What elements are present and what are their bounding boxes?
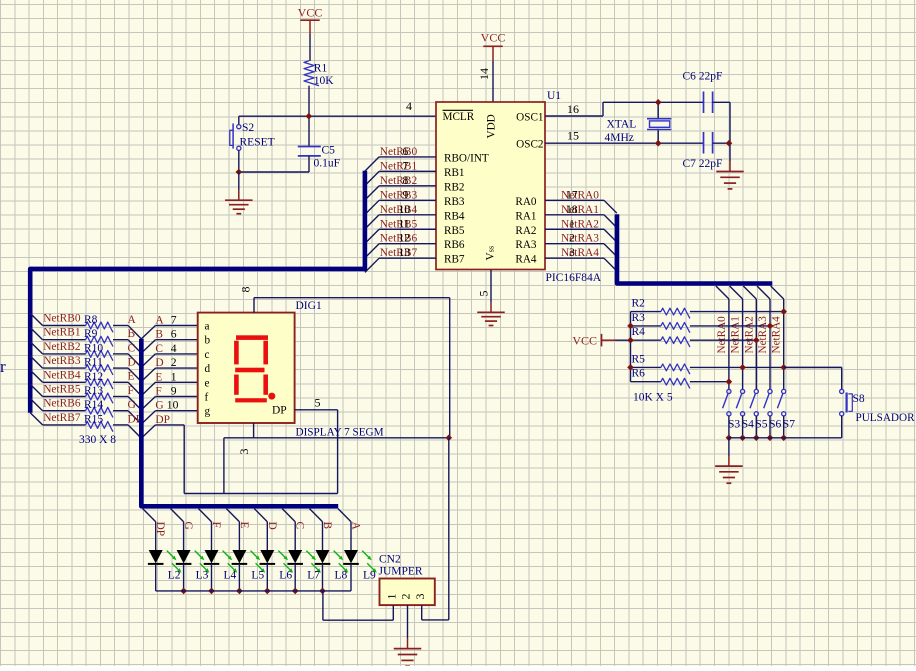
svg-text:0.1uF: 0.1uF <box>314 158 341 170</box>
bus entry row DP into display bus <box>128 425 155 438</box>
wire NetRA3 column <box>769 299 771 389</box>
svg-text:S3: S3 <box>728 419 740 431</box>
bus entry row A into display bus <box>128 326 155 339</box>
wire VCC to R1 <box>309 34 311 61</box>
svg-text:330 X 8: 330 X 8 <box>79 434 116 446</box>
value label 330 X 8 <box>79 434 116 446</box>
resistor R12 <box>43 371 129 389</box>
junction VCC column R5 <box>627 364 634 371</box>
segment letter E (at display) <box>155 370 176 383</box>
ground below U1 Vss <box>477 312 505 325</box>
U1 part type PIC16F84A <box>546 272 602 284</box>
bus entry left row G <box>30 399 42 411</box>
svg-text:9: 9 <box>171 385 177 398</box>
pin number 5 (display DP) <box>315 396 321 410</box>
net label NetRB2 (resistor array) <box>43 341 81 353</box>
resistor R1 <box>304 61 334 87</box>
resistor R13 <box>43 385 129 403</box>
segment letter D (left) <box>128 357 136 369</box>
wire S8 bottom to common <box>841 416 843 438</box>
net label NetRB4 (at U1) <box>380 203 418 216</box>
svg-text:Vss: Vss <box>485 246 497 261</box>
display pin letter g <box>205 406 211 418</box>
U1 designator <box>547 90 561 102</box>
bus entry to LED L6 <box>254 509 267 522</box>
svg-text:S5: S5 <box>755 419 767 431</box>
svg-text:DP: DP <box>155 414 170 426</box>
svg-text:R14: R14 <box>84 399 103 411</box>
svg-text:F: F <box>155 386 161 398</box>
net label NetRA3 (column) <box>757 316 769 354</box>
svg-text:10: 10 <box>167 399 179 412</box>
svg-text:NetRB5: NetRB5 <box>43 384 81 396</box>
svg-text:L2: L2 <box>168 570 181 582</box>
ground below S2 <box>225 172 253 214</box>
wire resistor feed column <box>630 312 632 382</box>
wire Vss pin to ground <box>490 270 492 312</box>
switch S2 <box>230 122 275 150</box>
wire NetRA4 to S8 <box>784 367 842 389</box>
LED L5 <box>232 522 266 582</box>
svg-text:7: 7 <box>403 159 409 172</box>
resistor R15 <box>43 413 129 431</box>
junction R6/NetRA0 <box>726 378 733 385</box>
svg-text:R8: R8 <box>84 314 98 326</box>
svg-text:4: 4 <box>406 99 412 113</box>
svg-text:NetRB1: NetRB1 <box>380 160 418 172</box>
bus entry row D into display bus <box>128 368 155 381</box>
wire NetRA2 column <box>755 299 757 389</box>
wire LED L9 cathode <box>350 564 352 591</box>
U1 pin name RB1 <box>444 167 465 179</box>
wire NetRA1 column <box>742 299 744 389</box>
net label NetRB1 (at U1) <box>380 159 418 172</box>
seven segment digit <box>234 335 268 402</box>
svg-text:OSC1: OSC1 <box>516 112 543 124</box>
svg-text:RBO/INT: RBO/INT <box>444 152 489 164</box>
wire RA4 to bus <box>545 258 617 271</box>
bus entry to LED L5 <box>226 509 239 522</box>
svg-text:6: 6 <box>403 145 409 158</box>
display pin letter e <box>205 377 210 389</box>
wire RB2 to bus <box>365 186 436 200</box>
svg-text:4: 4 <box>171 342 177 355</box>
svg-text:A: A <box>155 315 164 327</box>
wire RA3 to bus <box>545 244 617 257</box>
svg-text:10K: 10K <box>314 75 335 87</box>
display pin letter a <box>205 321 210 333</box>
CN2 pin number 3 <box>413 594 427 600</box>
svg-text:RA2: RA2 <box>515 225 536 237</box>
net label NetRB1 (resistor array) <box>43 327 81 339</box>
svg-text:MCLR: MCLR <box>443 111 475 123</box>
svg-text:RA1: RA1 <box>515 210 536 222</box>
bus entry to LED L9 <box>338 509 351 522</box>
svg-text:RB1: RB1 <box>444 167 465 179</box>
wire S7 to common <box>783 416 785 438</box>
svg-text:D: D <box>155 357 163 369</box>
svg-text:NetRA2: NetRA2 <box>561 218 599 230</box>
wire display bottom pin <box>224 423 449 438</box>
svg-text:R1: R1 <box>314 63 328 75</box>
resistor R4 <box>631 326 757 347</box>
svg-text:VCC: VCC <box>481 31 506 45</box>
junction R2/NetRA4 <box>780 308 787 315</box>
svg-text:NetRB0: NetRB0 <box>380 146 418 158</box>
svg-text:F: F <box>128 385 134 397</box>
wire RB4 to bus <box>365 215 436 229</box>
pin number 15 (OSC2) <box>567 129 579 143</box>
svg-text:D: D <box>128 357 136 369</box>
wire LED common to CN2 pin 1 <box>323 591 393 620</box>
bus entry to NetRA4 column <box>771 286 784 299</box>
svg-text:NetRB3: NetRB3 <box>43 355 81 367</box>
bus entry row C into display bus <box>128 354 155 367</box>
svg-text:DIG1: DIG1 <box>296 300 322 312</box>
svg-text:10K X 5: 10K X 5 <box>633 392 673 404</box>
bus entry to NetRA0 column <box>716 286 729 299</box>
svg-text:L5: L5 <box>251 570 264 582</box>
svg-text:NetRA3: NetRA3 <box>757 316 769 354</box>
wire display DP pin <box>295 409 338 411</box>
bus entry left row A <box>30 313 42 325</box>
display pin letter c <box>205 349 210 361</box>
segment letter D (LED) <box>266 522 278 530</box>
segment letter G (left) <box>128 399 136 411</box>
junction S6 common <box>767 435 774 442</box>
wire S6 to common <box>769 416 771 438</box>
LED L6 <box>260 522 294 582</box>
svg-text:b: b <box>205 335 211 347</box>
crystal XTAL 4MHz <box>605 102 672 144</box>
svg-text:3: 3 <box>413 594 427 600</box>
net label NetRB0 (at U1) <box>380 145 418 158</box>
svg-text:L3: L3 <box>196 570 209 582</box>
LED L8 <box>315 522 349 582</box>
svg-text:a: a <box>205 321 210 333</box>
net label NetRB2 (at U1) <box>380 174 418 187</box>
bus entry row G into display bus <box>128 411 155 424</box>
svg-text:R9: R9 <box>84 328 98 340</box>
display pin letter DP <box>272 405 287 417</box>
wire segment F to display pin <box>155 396 197 398</box>
junction LED L5 common <box>236 588 243 595</box>
wire RB0 to bus <box>365 157 436 171</box>
pin number 8 (display common top) <box>239 287 253 293</box>
display part type DISPLAY 7 SEGM <box>296 426 384 438</box>
capacitor C5 <box>298 145 340 173</box>
bus segment display feed <box>141 339 338 506</box>
net label NetRB5 (at U1) <box>380 217 418 230</box>
wire LED L6 cathode <box>266 564 268 591</box>
resistor R6 <box>631 368 729 389</box>
switch S8 PULSADOR <box>840 389 915 424</box>
switch S6 <box>764 389 782 430</box>
junction R5/NetRA4 <box>780 364 787 371</box>
svg-text:NetRA2: NetRA2 <box>743 316 755 353</box>
svg-text:14: 14 <box>477 68 491 80</box>
resistor R14 <box>43 399 129 417</box>
segment letter B (LED) <box>321 522 333 530</box>
U1 pin name OSC2 <box>516 139 543 151</box>
net label NetRB3 (resistor array) <box>43 355 81 367</box>
segment letter A (at display) <box>155 314 176 327</box>
capacitor C7 22pF <box>683 132 723 170</box>
wire stub DP net crossing <box>223 438 225 494</box>
svg-text:DP: DP <box>272 405 287 417</box>
wire segment D to display pin <box>155 367 197 369</box>
bus entry left row F <box>30 384 42 396</box>
bus entry to LED L4 <box>199 509 212 522</box>
wire segment DP routing <box>155 410 337 494</box>
bus entry to LED L8 <box>310 509 323 522</box>
junction LED L7 common <box>292 588 299 595</box>
pin number 4 (MCLR) <box>406 99 412 113</box>
svg-text:r: r <box>0 357 6 376</box>
svg-text:NetRA0: NetRA0 <box>716 316 728 354</box>
svg-text:R12: R12 <box>84 371 103 383</box>
U1 pin name MCLR (with overbar) <box>443 110 475 123</box>
switch S4 <box>736 389 754 430</box>
svg-text:12: 12 <box>399 232 411 245</box>
svg-text:C6 22pF: C6 22pF <box>683 71 723 83</box>
connector CN2 body <box>380 579 435 606</box>
U1 pin name RA3 <box>515 239 537 251</box>
svg-text:g: g <box>205 406 211 418</box>
wire LED L7 cathode <box>294 564 296 591</box>
svg-text:10: 10 <box>399 203 411 216</box>
svg-text:L4: L4 <box>224 570 237 582</box>
bus from U1 RB pins to resistor array <box>30 171 365 413</box>
wire LED L8 cathode <box>322 564 324 591</box>
wire S4 to common <box>742 416 744 438</box>
U1 pin name RB6 <box>444 239 465 251</box>
wire RB6 to bus <box>365 244 436 258</box>
svg-text:VCC: VCC <box>572 333 597 347</box>
svg-text:5: 5 <box>315 396 321 410</box>
display pin letter d <box>205 363 211 375</box>
wire OSC1 to crystal <box>545 102 704 116</box>
pin number 16 (OSC1) <box>567 102 579 116</box>
power VCC (top left) <box>298 6 323 35</box>
bus entry to LED L2 <box>143 509 156 522</box>
wire VCC to resistor column <box>615 339 631 341</box>
svg-text:3: 3 <box>569 246 575 259</box>
switch S7 <box>777 389 795 430</box>
segment letter C (at display) <box>155 342 176 355</box>
bus entry left row DP <box>30 413 42 425</box>
U1 pin name RB4 <box>444 210 465 222</box>
display DIG1 body <box>198 313 295 423</box>
bus entry left row B <box>30 328 42 340</box>
svg-text:CN2: CN2 <box>379 554 401 566</box>
junction S2/C5/ground <box>236 169 243 176</box>
svg-text:RB6: RB6 <box>444 239 465 251</box>
svg-text:R2: R2 <box>632 298 646 310</box>
svg-text:NetRB4: NetRB4 <box>43 369 81 381</box>
svg-text:B: B <box>128 328 136 340</box>
net label NetRA0 (column) <box>716 316 728 354</box>
junction LED L6 common <box>264 588 271 595</box>
segment letter F (at display) <box>155 385 176 398</box>
resistor R3 <box>631 312 771 333</box>
bus entry to NetRA3 column <box>757 286 770 299</box>
U1 pin name RA2 <box>515 225 536 237</box>
svg-text:NetRB6: NetRB6 <box>43 398 81 410</box>
wire RB3 to bus <box>365 200 436 214</box>
net label NetRA2 (column) <box>743 316 755 353</box>
resistor R9 <box>43 328 129 346</box>
svg-text:RB5: RB5 <box>444 225 465 237</box>
segment letter A (LED) <box>350 522 362 531</box>
svg-text:R11: R11 <box>84 357 103 369</box>
net label NetRB6 (resistor array) <box>43 398 81 410</box>
svg-text:S2: S2 <box>242 122 254 134</box>
wire RA0 to bus <box>545 200 617 213</box>
wire segment B to display pin <box>155 339 197 341</box>
value label 10K X 5 <box>633 392 673 404</box>
svg-text:C: C <box>128 342 136 354</box>
wire RA2 to bus <box>545 229 617 242</box>
display designator DIG1 <box>296 300 322 312</box>
decimal point dot <box>268 393 275 400</box>
wire RB5 to bus <box>365 229 436 243</box>
svg-text:S7: S7 <box>783 419 795 431</box>
junction DIG1 net <box>446 435 453 442</box>
junction LED L3 common <box>180 588 187 595</box>
junction LED L8 common <box>319 588 326 595</box>
svg-text:R4: R4 <box>632 326 646 338</box>
net label NetRA3 (at U1) <box>561 232 599 245</box>
wire segment A to display pin <box>155 325 197 327</box>
svg-text:NetRA3: NetRA3 <box>561 233 599 245</box>
svg-text:RA3: RA3 <box>515 239 537 251</box>
svg-text:G: G <box>155 400 163 412</box>
wire S2 bottom to ground junction <box>239 150 309 172</box>
wire RB7 to bus <box>365 258 436 272</box>
segment letter C (left) <box>128 342 136 354</box>
svg-text:E: E <box>155 371 162 383</box>
wire segment C to display pin <box>155 353 197 355</box>
segment letter G (at display) <box>155 399 178 412</box>
wire C6 right to C7 right <box>713 102 730 161</box>
svg-text:NetRB0: NetRB0 <box>43 313 81 325</box>
svg-text:f: f <box>205 392 209 404</box>
junction R5/NetRA1 <box>739 364 746 371</box>
svg-text:4MHz: 4MHz <box>605 132 634 144</box>
U1 pin name VDD <box>486 114 498 138</box>
U1 pin name RA1 <box>515 210 536 222</box>
svg-text:RA0: RA0 <box>515 196 537 208</box>
svg-text:L7: L7 <box>307 570 320 582</box>
wire segment E to display pin <box>155 381 197 383</box>
segment letter G (LED) <box>182 522 194 530</box>
LED L2 <box>148 522 182 582</box>
svg-text:JUMPER: JUMPER <box>379 566 423 578</box>
segment letter B (at display) <box>155 328 176 341</box>
svg-text:1: 1 <box>171 370 177 383</box>
svg-text:R6: R6 <box>632 368 646 380</box>
wire S5 to common <box>755 416 757 438</box>
ground below switches <box>715 438 743 483</box>
U1 pin name RA0 <box>515 196 537 208</box>
svg-text:13: 13 <box>399 246 411 259</box>
bus entry row B into display bus <box>128 340 155 353</box>
CN2 part type JUMPER <box>379 566 423 578</box>
junction S5 common <box>753 435 760 442</box>
U1 pin name RB5 <box>444 225 465 237</box>
junction C7/ground <box>726 140 733 147</box>
segment letter B (left) <box>128 328 136 340</box>
wire RB1 to bus <box>365 171 436 185</box>
wire MCLR net (S2 to U1 pin 4) <box>239 116 436 125</box>
switch S5 <box>750 389 768 430</box>
junction R1/MCLR <box>306 113 313 120</box>
bus from U1 RA pins to switches <box>617 214 772 283</box>
svg-text:RB3: RB3 <box>444 196 465 208</box>
svg-text:XTAL: XTAL <box>607 119 637 131</box>
svg-text:S8: S8 <box>853 393 865 405</box>
wire LED L3 cathode <box>183 564 185 591</box>
svg-text:RB4: RB4 <box>444 210 465 222</box>
svg-text:NetRB2: NetRB2 <box>380 175 418 187</box>
svg-text:G: G <box>128 399 136 411</box>
wire display top pin to DIG1 net <box>254 298 450 438</box>
net label NetRB5 (resistor array) <box>43 384 81 396</box>
svg-text:R3: R3 <box>632 312 646 324</box>
U1 pin name RA4 <box>515 254 537 266</box>
svg-text:NetRB7: NetRB7 <box>43 412 81 424</box>
svg-text:6: 6 <box>171 328 177 341</box>
svg-text:2: 2 <box>171 356 177 369</box>
LED L4 <box>204 522 238 582</box>
CN2 designator <box>379 554 401 566</box>
partial text at canvas edge <box>0 357 6 376</box>
svg-text:NetRA4: NetRA4 <box>561 247 599 259</box>
svg-text:RESET: RESET <box>240 136 275 148</box>
switch S3 <box>723 389 741 430</box>
svg-text:A: A <box>128 314 137 326</box>
pin number 5 (Vss) <box>477 291 491 297</box>
svg-text:3: 3 <box>237 449 251 455</box>
junction S4 common <box>739 435 746 442</box>
resistor R8 <box>43 314 129 332</box>
segment letter DP (row) <box>155 414 170 426</box>
LED L9 <box>343 522 377 582</box>
wire NetRA0 column <box>728 299 730 389</box>
net label NetRA1 (column) <box>730 316 742 353</box>
svg-text:16: 16 <box>567 102 579 116</box>
ground below C7 <box>716 161 744 189</box>
svg-text:11: 11 <box>399 217 410 230</box>
bus entry row E into display bus <box>128 382 155 395</box>
wire LED L4 cathode <box>211 564 213 591</box>
svg-text:1: 1 <box>569 217 575 230</box>
LED L7 <box>287 522 321 582</box>
segment letter E (left) <box>128 371 135 383</box>
net label NetRA2 (at U1) <box>561 217 599 230</box>
segment letter F (LED) <box>210 522 222 528</box>
svg-text:S6: S6 <box>769 419 781 431</box>
svg-text:C: C <box>155 343 163 355</box>
U1 pin name OSC1 <box>516 112 543 124</box>
svg-text:OSC2: OSC2 <box>516 139 543 151</box>
pin number 3 (display common bottom) <box>237 449 251 455</box>
segment letter F (left) <box>128 385 134 397</box>
svg-text:9: 9 <box>403 188 409 201</box>
pin number 14 (VDD) <box>477 68 491 80</box>
svg-text:E: E <box>128 371 135 383</box>
